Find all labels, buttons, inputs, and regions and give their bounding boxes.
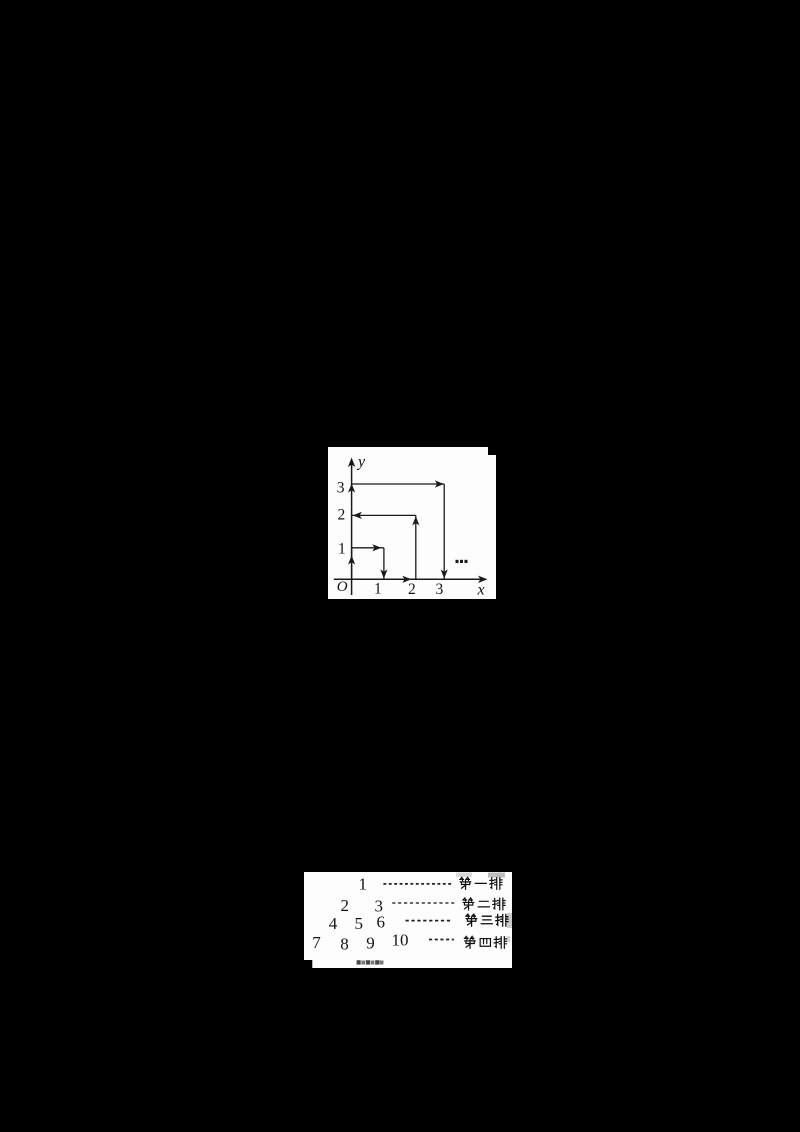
svg-text:3: 3: [337, 480, 345, 497]
arrowhead down at (3,0): [441, 569, 448, 578]
figure 2: triangular number arrangement with row labels: [304, 872, 512, 968]
bottom ellipsis dots: [357, 960, 384, 964]
svg-text:y: y: [356, 454, 366, 471]
x-axis: [334, 578, 481, 580]
svg-text:1: 1: [374, 581, 382, 598]
y-axis arrowhead: [348, 458, 355, 468]
svg-text:6: 6: [377, 912, 386, 931]
path segment (1,1) down to (1,0): [383, 548, 385, 579]
svg-text:4: 4: [329, 914, 338, 933]
svg-text:2: 2: [408, 581, 416, 598]
figure 1: coordinate-plane spiral diagram: [328, 447, 496, 599]
arrowhead right at (1,1): [372, 544, 381, 551]
svg-text:7: 7: [312, 933, 321, 952]
svg-text:3: 3: [436, 581, 444, 598]
dashed line row 4: [429, 939, 454, 941]
white panel with notched top-right corner: [328, 447, 496, 599]
path segment (3,3) down to (3,0): [443, 484, 445, 579]
dashed line row 3: [406, 920, 453, 922]
path segment (0,1) to (1,1): [352, 547, 384, 549]
svg-text:10: 10: [392, 931, 409, 950]
path segment (2,0) up to (2,2): [415, 515, 417, 579]
svg-text:8: 8: [340, 935, 349, 954]
svg-text:2: 2: [338, 507, 346, 524]
dashed line row 2: [392, 902, 454, 904]
arrowhead up on y-axis below y=1: [348, 556, 355, 565]
svg-text:1: 1: [338, 541, 346, 558]
label 第二排: [463, 898, 505, 910]
svg-text:9: 9: [366, 934, 375, 953]
path segment (0,3) to (3,3): [352, 483, 445, 485]
y-axis: [351, 464, 353, 595]
svg-text:5: 5: [355, 914, 364, 933]
arrowhead right on x-axis before x=2: [402, 576, 411, 583]
svg-text:2: 2: [341, 896, 350, 915]
faint scan artifacts: [456, 873, 472, 878]
svg-text:1: 1: [359, 874, 368, 893]
x-axis arrowhead: [478, 576, 488, 583]
arrowhead up on y-axis below y=3: [348, 484, 355, 493]
svg-text:x: x: [477, 582, 485, 599]
ellipsis dots: [456, 560, 468, 563]
arrowhead up at (2,2): [412, 516, 419, 525]
label 第一排: [460, 877, 502, 889]
label 第三排: [466, 914, 508, 926]
path segment origin up to (0,1): [351, 548, 353, 580]
white panel with notched bottom-left corner: [304, 872, 512, 968]
svg-text:O: O: [337, 579, 348, 595]
dashed line row 1: [383, 883, 452, 885]
path segment (2,2) to (0,2): [352, 514, 416, 516]
label 第四排: [464, 936, 506, 948]
arrowhead right at (3,3): [435, 480, 444, 487]
arrowhead left at (0,2): [353, 512, 362, 519]
arrowhead down at (1,0): [380, 569, 387, 578]
